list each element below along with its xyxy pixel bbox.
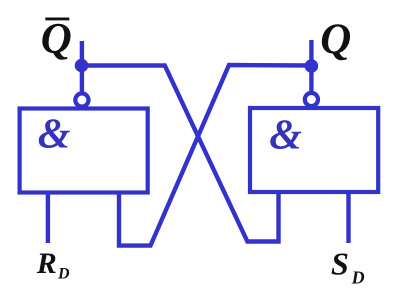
junction dot at Q [305,59,319,73]
svg-text:&: & [269,112,302,158]
NAND gate U1 (left, IEC symbol) [20,109,148,193]
svg-text:D: D [351,268,365,288]
wire: U1 output stub (node Qbar) [80,41,84,93]
svg-text:Q: Q [320,16,351,63]
NAND gate U2 (right, IEC symbol) [250,108,378,192]
svg-text:S: S [331,245,349,281]
wire: Qbar node to U2 lower-left input (cross-coupling) [82,66,279,242]
svg-text:&: & [38,112,71,158]
junction dot at Qbar [75,59,89,73]
svg-text:Q: Q [41,16,72,63]
wire: RD input pin of U1 [46,193,50,244]
svg-text:D: D [57,266,70,283]
wire: U2 output stub (node Q) [309,40,313,92]
overbar of Qbar [45,17,69,20]
wire: Q node to U1 lower-right input (cross-coupling) [119,65,311,246]
wire: SD input pin of U2 [346,192,350,243]
inversion bubble of U2 [305,93,318,106]
svg-text:R: R [36,247,57,280]
inversion bubble of U1 [75,93,88,106]
